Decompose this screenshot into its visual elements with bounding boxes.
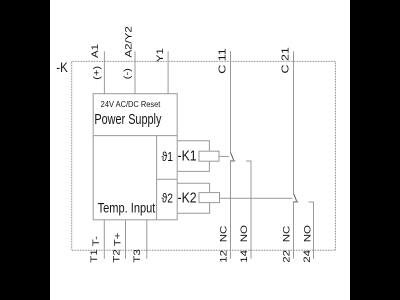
svg-text:ϑ2: ϑ2 [162, 193, 173, 206]
svg-text:24: 24 [302, 250, 313, 263]
svg-text:A1: A1 [90, 44, 101, 58]
svg-text:12: 12 [218, 250, 229, 263]
svg-text:(+): (+) [92, 66, 102, 80]
svg-text:T3: T3 [132, 249, 143, 263]
svg-text:NO: NO [302, 225, 313, 242]
svg-text:C 21: C 21 [280, 47, 291, 73]
svg-text:14: 14 [239, 250, 250, 263]
svg-text:A2/Y2: A2/Y2 [123, 26, 134, 57]
svg-text:C 11: C 11 [217, 48, 228, 73]
svg-text:NC: NC [218, 225, 229, 242]
svg-text:24V AC/DC Reset: 24V AC/DC Reset [101, 99, 161, 108]
svg-text:22: 22 [281, 250, 292, 263]
svg-text:Temp. Input: Temp. Input [98, 200, 156, 216]
svg-text:NC: NC [281, 225, 292, 242]
svg-text:(-): (-) [123, 68, 133, 79]
svg-text:NO: NO [239, 225, 250, 242]
svg-text:T-: T- [91, 236, 102, 247]
svg-text:Power Supply: Power Supply [94, 111, 162, 127]
svg-text:-K1: -K1 [178, 148, 197, 164]
svg-text:Y1: Y1 [155, 48, 166, 62]
svg-text:T2: T2 [112, 249, 123, 263]
svg-text:T+: T+ [112, 233, 123, 247]
svg-text:-K: -K [56, 59, 68, 75]
svg-text:ϑ1: ϑ1 [162, 151, 173, 164]
svg-text:T1: T1 [89, 249, 100, 263]
svg-text:-K2: -K2 [178, 189, 197, 205]
